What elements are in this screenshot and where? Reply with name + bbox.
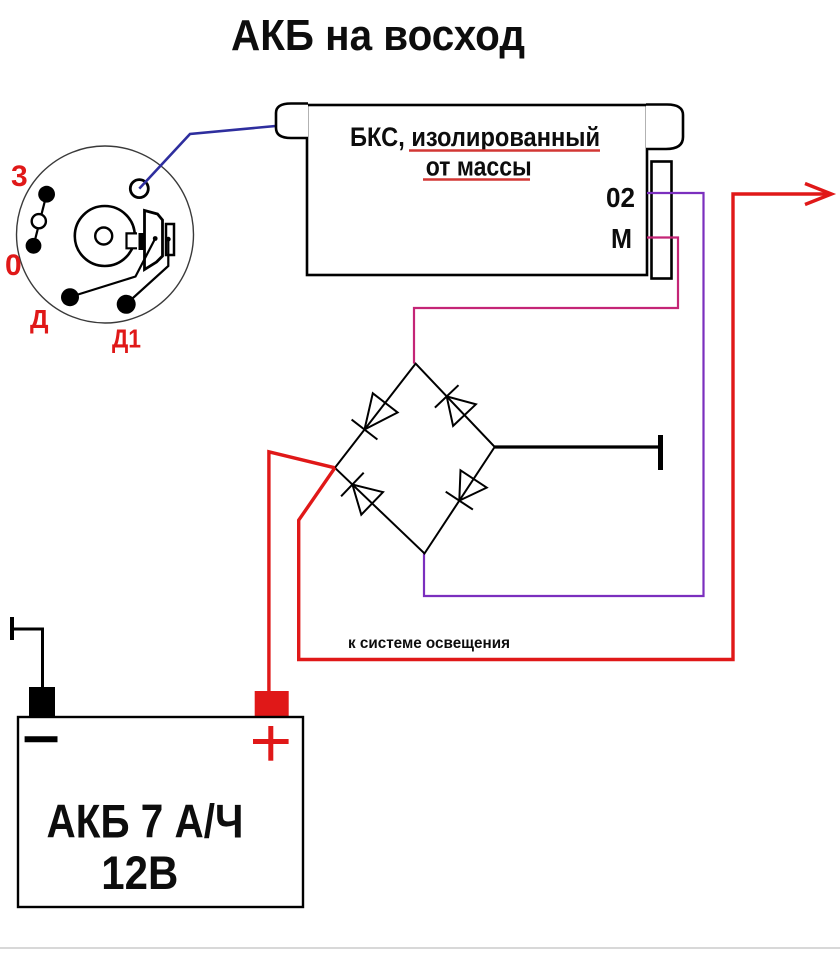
- diode D2 (top-right): [435, 385, 476, 426]
- battery case: [18, 717, 303, 907]
- wire blue (switch terminal to BKC left lug): [139, 125, 286, 189]
- red underline 1: [409, 149, 600, 151]
- battery label line 2: [101, 846, 178, 899]
- wire magenta (М to bridge top): [414, 238, 678, 364]
- wiper plate outline: [145, 211, 163, 270]
- switch terminal (open circle, blue wire): [130, 180, 148, 198]
- BKC left mounting lug: [276, 104, 308, 139]
- plus sign: [253, 726, 289, 761]
- svg-text:12В: 12В: [101, 846, 178, 899]
- title "АКБ на восход": [231, 11, 525, 60]
- BKC label line 2: [426, 151, 532, 181]
- switch rotor: [75, 206, 137, 266]
- battery ground wire: [12, 629, 43, 688]
- label 0: [5, 249, 22, 282]
- label Д: [30, 304, 49, 334]
- diode D4 (bottom-right): [446, 470, 487, 509]
- label Д1: [112, 324, 141, 354]
- red underline 2: [423, 178, 530, 180]
- rotor center hole: [95, 228, 112, 245]
- svg-text:Д: Д: [30, 304, 49, 334]
- connector open circle between 3 and 0: [32, 214, 46, 228]
- label к системе освещения: [348, 635, 510, 652]
- diode D3 (bottom-left): [341, 473, 383, 515]
- minus sign: [25, 736, 58, 742]
- rotor contact (black block): [139, 233, 149, 250]
- chassis terminal bar: [658, 435, 663, 470]
- svg-text:АКБ на восход: АКБ на восход: [231, 11, 525, 60]
- switch contact link 3-0: [34, 194, 47, 246]
- ignition switch body (circle): [17, 146, 194, 323]
- right contact bracket: [166, 224, 174, 255]
- wire purple (02 to bridge bottom): [424, 193, 704, 596]
- svg-text:Д1: Д1: [112, 324, 141, 354]
- battery ground bar: [10, 617, 14, 640]
- wire red (bridge + to battery +): [269, 452, 335, 692]
- BKC connector block: [652, 162, 672, 279]
- pin label 02: [606, 182, 635, 213]
- footer divider line: [0, 947, 840, 949]
- terminal dot Д1: [117, 295, 136, 314]
- wire black (bridge to chassis): [495, 445, 659, 448]
- BKC box: [307, 105, 647, 275]
- svg-text:3: 3: [11, 160, 28, 193]
- wire from bracket to terminal Д1: [126, 239, 168, 304]
- battery label line 1: [47, 794, 244, 847]
- battery negative terminal: [29, 687, 55, 717]
- wiper pivot dot 1: [153, 236, 158, 241]
- svg-text:к системе освещения: к системе освещения: [348, 635, 510, 652]
- terminal dot 3: [38, 186, 55, 203]
- svg-text:02: 02: [606, 182, 635, 213]
- battery positive terminal: [255, 691, 289, 717]
- svg-text:М: М: [611, 223, 632, 254]
- terminal dot Д: [61, 288, 79, 306]
- wire from wiper to terminal Д: [70, 239, 155, 298]
- svg-text:от массы: от массы: [426, 151, 532, 181]
- bridge rectifier diamond: [335, 364, 495, 554]
- svg-text:БКС, изолированный: БКС, изолированный: [350, 122, 600, 152]
- red arrow head: [805, 184, 832, 205]
- wire red (bridge + to lighting system and arrow): [299, 194, 830, 660]
- label 3: [11, 160, 28, 193]
- pin label М: [611, 223, 632, 254]
- svg-text:АКБ 7 А/Ч: АКБ 7 А/Ч: [47, 794, 244, 847]
- BKC label line 1: [350, 122, 600, 152]
- terminal dot 0: [26, 238, 42, 254]
- svg-text:0: 0: [5, 249, 22, 282]
- wiper pivot dot 2: [166, 237, 171, 242]
- diode D1 (top-left): [352, 393, 398, 439]
- BKC right mounting lug: [646, 105, 683, 150]
